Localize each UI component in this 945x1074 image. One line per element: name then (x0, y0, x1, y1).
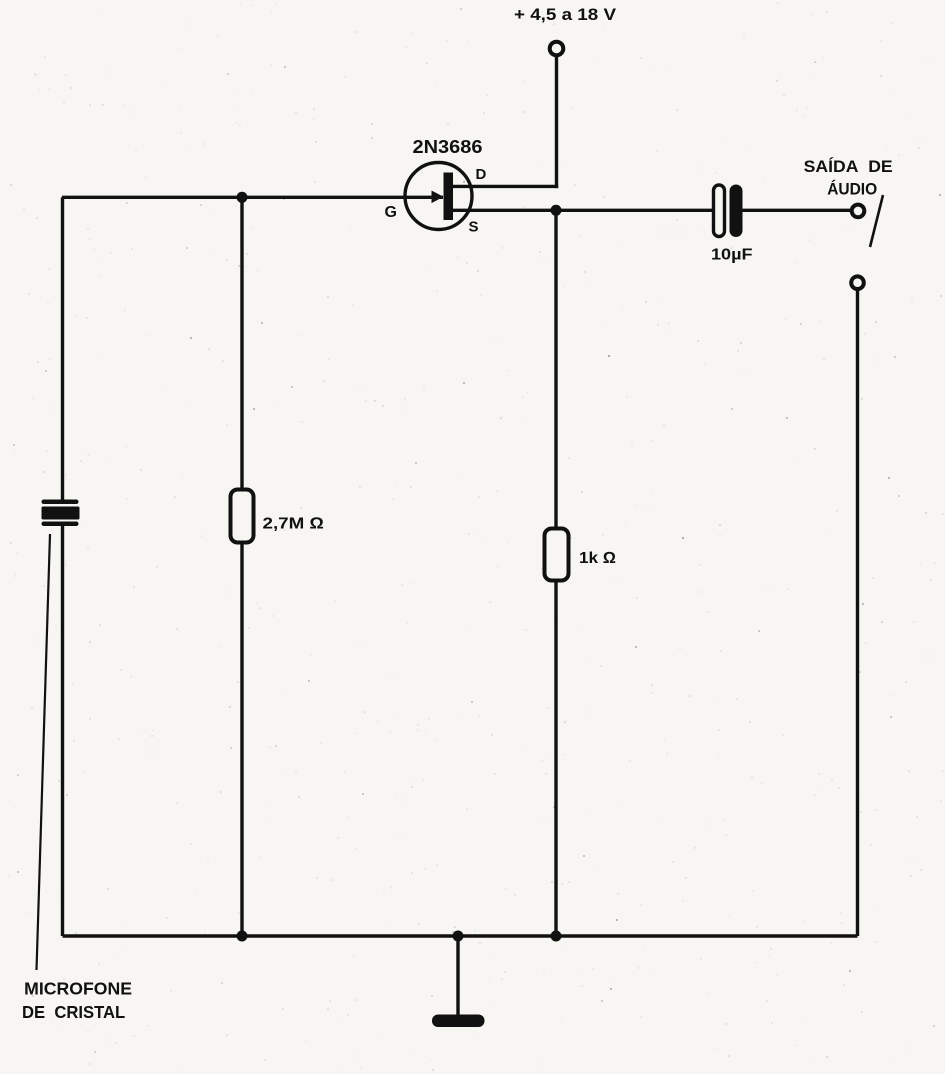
svg-text:10µF: 10µF (711, 246, 753, 263)
resistor R1 2,7M (231, 490, 254, 543)
wire left vertical upper (61, 197, 64, 501)
wire gate (62, 196, 443, 199)
svg-text:DE CRISTAL: DE CRISTAL (22, 1002, 125, 1022)
leader slash (870, 195, 883, 247)
svg-text:S: S (469, 219, 479, 236)
wire right vertical (856, 290, 859, 937)
wire ground stub (456, 936, 459, 1017)
svg-text:ÁUDIO: ÁUDIO (827, 179, 877, 198)
output terminal upper (852, 205, 865, 218)
ground (432, 1015, 485, 1028)
node junction gate R1 (237, 192, 248, 203)
svg-text:MICROFONE: MICROFONE (24, 978, 132, 998)
svg-text:1k Ω: 1k Ω (579, 550, 616, 567)
svg-text:SAÍDA DE: SAÍDA DE (804, 157, 893, 176)
transistor Q1 2N3686 (405, 163, 472, 230)
node junction source R2 (551, 205, 562, 216)
output terminal lower (851, 276, 864, 289)
microphone leader line (37, 534, 51, 970)
wire bottom horizontal (63, 934, 858, 938)
svg-text:2,7M Ω: 2,7M Ω (263, 515, 325, 532)
wire drain (453, 185, 558, 188)
wire source (453, 209, 715, 212)
wire R1 branch lower (240, 543, 243, 937)
supply terminal (550, 42, 564, 56)
resistor R2 1k (545, 529, 569, 581)
wire capacitor to output (742, 209, 850, 212)
wire R1 branch upper (240, 197, 243, 490)
wire supply vertical (555, 56, 558, 189)
wire R2 branch lower (554, 580, 557, 936)
svg-text:2N3686: 2N3686 (413, 137, 483, 157)
svg-text:D: D (476, 166, 487, 183)
node junction R2 bottom (551, 931, 562, 942)
wire R2 branch upper (554, 210, 557, 529)
svg-text:+ 4,5 a 18 V: + 4,5 a 18 V (514, 5, 617, 24)
node junction ground (453, 931, 464, 942)
capacitor C1 10uF (714, 185, 743, 238)
svg-text:G: G (385, 204, 397, 221)
node junction R1 bottom (237, 931, 248, 942)
wire left vertical lower (61, 524, 64, 936)
microphone crystal (42, 500, 80, 527)
